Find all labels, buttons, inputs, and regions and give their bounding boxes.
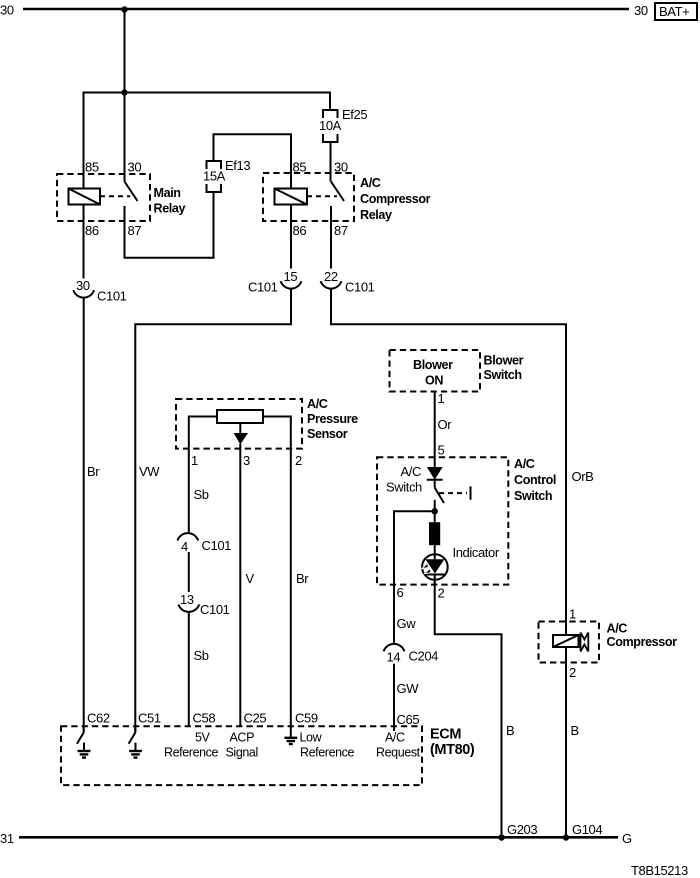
svg-text:ACP: ACP [230,731,255,745]
svg-text:B: B [506,723,514,738]
svg-text:30: 30 [76,278,90,293]
wire C101-15 to VW to ECM C51 [135,289,291,733]
node junction y92 [121,89,127,95]
svg-text:Blower: Blower [413,358,453,372]
svg-text:30: 30 [128,160,142,175]
svg-text:Relay: Relay [154,202,186,216]
ground internal C62 [77,726,90,757]
connector C101 pin 30 [73,278,126,304]
wire from rail down to node [124,10,126,93]
svg-text:86: 86 [293,223,307,238]
wire sensor pin3 V to ECM C25 [239,444,241,726]
svg-text:2: 2 [295,453,302,468]
connector C101 pin 15 [248,269,301,295]
svg-text:30: 30 [634,3,648,18]
node switch junction [432,508,438,514]
switch S2 A/C Control Switch [377,457,556,585]
sensor B1 A/C Pressure Sensor [176,397,358,468]
svg-text:Low: Low [300,731,323,745]
svg-text:A/C: A/C [514,457,535,471]
svg-text:A/C: A/C [607,622,628,636]
svg-text:C101: C101 [202,538,232,553]
resistor R1 indicator series [429,522,440,545]
svg-text:2: 2 [569,665,576,680]
LED indicator [422,554,448,580]
svg-text:G203: G203 [507,822,537,837]
battery BAT+ terminal box [655,3,697,20]
wire main relay pin30 [124,93,126,182]
svg-text:15: 15 [284,269,298,284]
wire between C101-4 and C101-13 [188,552,190,592]
svg-text:G: G [622,831,632,846]
wire Ef13 top to A/C relay 85 [214,134,292,188]
svg-text:Switch: Switch [386,480,422,495]
connector C204 pin 14 [384,644,439,665]
svg-text:C101: C101 [200,602,230,617]
wire A/C relay 87 to C101-22 [330,206,332,269]
svg-text:15A: 15A [203,169,226,184]
svg-text:C101: C101 [248,280,278,295]
wire horizontal feed y92 [84,93,331,190]
svg-text:Indicator: Indicator [453,545,500,560]
svg-text:A/C: A/C [360,176,381,190]
svg-text:B: B [571,723,579,738]
wire C101-22 to OrB to compressor [331,289,566,636]
wire sensor pin2 Br to ECM C59 [290,449,292,738]
svg-text:Sb: Sb [194,648,209,663]
svg-text:Main: Main [154,186,181,200]
svg-text:C65: C65 [397,712,420,727]
svg-text:5V: 5V [195,731,211,745]
svg-text:Pressure: Pressure [307,412,358,426]
svg-text:C101: C101 [345,280,375,295]
svg-text:30: 30 [334,160,348,175]
bus 30 top rail [23,8,629,11]
node junction top rail [121,6,127,12]
svg-text:C58: C58 [193,711,216,726]
svg-text:3: 3 [243,453,250,468]
wire main relay 87 to Ef13 [125,192,214,258]
mechanical link dashed [439,492,467,494]
svg-text:C51: C51 [138,711,161,726]
svg-text:Blower: Blower [484,354,524,368]
svg-text:30: 30 [0,3,14,18]
fuse Ef25 10A [319,107,367,142]
svg-text:A/C: A/C [401,464,421,479]
svg-text:Compressor: Compressor [607,635,678,649]
bus 31 bottom rail [19,836,618,839]
node junction G203 [498,834,504,840]
wire C204 to ECM C65 [393,664,395,731]
svg-text:4: 4 [181,539,188,554]
ECM module box (MT80) [61,711,475,786]
svg-text:87: 87 [128,223,142,238]
svg-text:87: 87 [334,223,348,238]
fuse Ef13 15A [203,158,250,192]
svg-text:Gw: Gw [397,616,417,631]
svg-text:85: 85 [293,160,307,175]
svg-text:Compressor: Compressor [360,192,431,206]
svg-text:C101: C101 [97,289,127,304]
svg-text:ECM: ECM [430,727,461,743]
wire blower pin1 Or to A/C switch [434,392,436,468]
svg-text:Reference: Reference [164,746,219,760]
svg-text:Or: Or [438,417,453,432]
wire Ef25 to A/C relay 30 [330,142,332,182]
switch blade [435,488,444,503]
svg-text:22: 22 [324,269,338,284]
svg-text:Switch: Switch [484,368,522,382]
wire A/C switch pin2 B to ground rail [435,580,502,838]
svg-text:GW: GW [397,681,420,696]
svg-text:Signal: Signal [226,746,258,760]
ground internal C59 low reference [284,738,297,744]
svg-text:5: 5 [438,443,445,458]
svg-text:C25: C25 [244,711,267,726]
connector C101 pin 22 [321,269,375,295]
svg-text:2: 2 [438,586,445,601]
svg-text:6: 6 [397,585,404,600]
svg-text:T8B15213: T8B15213 [631,863,688,878]
connector C101 pin 4 [177,533,231,554]
svg-text:1: 1 [438,391,445,406]
svg-text:Control: Control [514,473,556,487]
svg-text:Reference: Reference [300,746,355,760]
wire C101-13 to ECM C58 [188,612,190,726]
relay K1 Main Relay [57,160,186,239]
svg-text:OrB: OrB [572,469,594,484]
ground internal C51 [129,726,142,757]
svg-text:31: 31 [0,831,14,846]
wire compressor pin2 B to ground rail [565,647,567,838]
svg-text:C62: C62 [87,711,110,726]
svg-text:C59: C59 [295,711,318,726]
svg-text:Br: Br [87,464,100,479]
svg-text:BAT+: BAT+ [659,4,689,19]
wire sensor pin1 upper [188,449,190,534]
svg-text:Br: Br [296,571,309,586]
svg-text:(MT80): (MT80) [430,742,475,758]
svg-text:10A: 10A [319,118,342,133]
wire A/C switch pin6 upper [394,511,435,644]
wire Br C101 to ECM C62 [83,298,85,733]
svg-text:Ef25: Ef25 [342,107,367,122]
svg-text:86: 86 [85,223,99,238]
clutch symbol [579,633,589,652]
node junction G104 [563,834,569,840]
LED arrows [422,563,429,568]
svg-text:ON: ON [425,374,443,388]
svg-text:1: 1 [569,607,576,622]
svg-text:A/C: A/C [385,731,405,745]
svg-text:Ef13: Ef13 [225,158,250,173]
svg-text:Relay: Relay [360,208,392,222]
svg-text:13: 13 [180,592,194,607]
wire Br main relay 86 upper [83,205,85,279]
switch S1 Blower Switch box [390,350,524,392]
svg-text:V: V [246,571,255,586]
relay K2 A/C Compressor Relay [263,160,431,239]
svg-text:A/C: A/C [307,397,328,411]
svg-text:85: 85 [85,160,99,175]
svg-text:G104: G104 [572,822,602,837]
motor M1 A/C Compressor [539,607,678,681]
A/C switch contact triangle [427,467,443,480]
svg-text:VW: VW [139,464,160,479]
svg-text:Sb: Sb [194,487,209,502]
svg-text:Sensor: Sensor [307,427,348,441]
svg-text:14: 14 [387,650,401,665]
svg-text:Switch: Switch [514,489,552,503]
svg-text:C204: C204 [409,649,439,664]
connector C101 pin 13 [178,592,229,617]
svg-text:Request: Request [376,746,421,760]
wire A/C relay 86 to C101-15 [290,205,292,269]
svg-text:1: 1 [191,453,198,468]
